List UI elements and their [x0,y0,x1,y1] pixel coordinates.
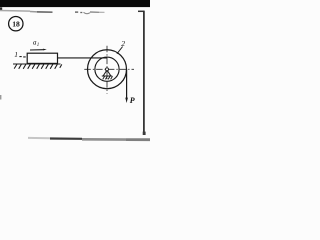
svg-text:18: 18 [12,20,20,29]
svg-text:1: 1 [14,50,18,59]
svg-text:1: 1 [37,43,40,48]
svg-text:P: P [130,96,135,105]
svg-text:2: 2 [121,39,125,48]
